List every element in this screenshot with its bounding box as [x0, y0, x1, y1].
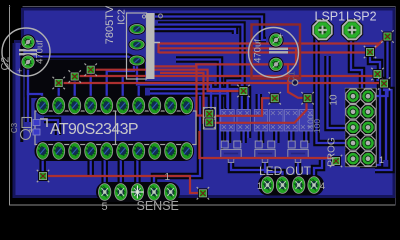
svg-text:C2: C2 — [0, 56, 12, 70]
wire IC pin 6 up — [119, 76, 126, 104]
resistor bodies R1-R6 (vertical) — [221, 110, 313, 132]
svg-text:LSP1: LSP1 — [315, 10, 346, 24]
wire band trace 1 core — [137, 62, 211, 110]
svg-text:7805TV: 7805TV — [104, 5, 116, 44]
IC1 socket centre divider — [115, 111, 117, 145]
wire resistor stubs — [224, 131, 231, 143]
wire sense 4 up — [118, 152, 125, 190]
capacitor C1 red courtyard box — [252, 25, 301, 79]
wire row2 pin4 down — [87, 160, 94, 176]
wire row2 pin1 to via — [39, 152, 46, 174]
svg-text:AT90S2343P: AT90S2343P — [50, 121, 138, 138]
wire LSP1 down — [317, 34, 347, 143]
wire header left — [328, 56, 347, 128]
wire left bus — [31, 57, 137, 61]
svg-text:1: 1 — [257, 181, 262, 191]
via V5 — [269, 92, 281, 104]
wire IC pin 5 up core — [107, 63, 134, 104]
IC1 row2 pads — [35, 141, 194, 160]
wire sense 4 up core — [120, 152, 122, 190]
via V11 — [37, 170, 49, 182]
via V10 — [378, 77, 390, 89]
wire resistor R3 top stub — [256, 94, 263, 110]
isolation zone left-middle — [31, 60, 145, 98]
wire red A4 to via hdr — [195, 64, 303, 97]
wire band trace 2 core — [150, 89, 248, 138]
IC1 row1 pads — [35, 96, 194, 115]
7805 pad 1 — [128, 23, 145, 35]
wire red B1 — [91, 70, 240, 91]
isolation band IC row 2 — [35, 141, 194, 161]
svg-text:1: 1 — [165, 172, 171, 183]
wire LSP1 down core — [317, 34, 347, 143]
wire red via1-via2 diagonal — [370, 37, 388, 53]
wire upper L trace core — [176, 60, 220, 151]
connector X1 pads (bottom layer) — [33, 120, 40, 126]
wire red C2 resistor row — [212, 98, 307, 123]
wire via to IC pin 4 — [87, 71, 94, 104]
svg-text:470uf: 470uf — [253, 39, 264, 63]
via V1 — [53, 77, 65, 89]
wire right edge 1 core — [374, 38, 388, 96]
wire C2- trunk down — [25, 90, 32, 122]
voltage regulator IC2 7805 silkscreen — [127, 13, 163, 79]
wire transistor q1 to led1 — [231, 160, 268, 182]
wire red stub 7805 out — [157, 43, 159, 54]
wire row2 pin1 to via core — [42, 152, 44, 174]
wire top L2 — [158, 25, 243, 87]
wire LSP2 down — [351, 34, 362, 100]
7805 pad 2 — [128, 39, 145, 51]
PROG header pads — [345, 88, 376, 166]
wire X1 to plane core — [44, 120, 58, 135]
connector JP1 pads (2 pad jumper) — [203, 108, 215, 130]
LED OUT pads — [260, 175, 322, 195]
wire right edge 3 core — [378, 76, 387, 160]
svg-text:5: 5 — [102, 201, 108, 213]
via V12 — [197, 187, 209, 199]
wire via V4 down core — [241, 92, 243, 109]
svg-text:SENSE: SENSE — [137, 199, 179, 213]
board outline frame bottom — [9, 204, 396, 206]
wire led4 up core — [314, 160, 322, 182]
transistor Q2 — [255, 141, 275, 163]
wire IC pin 6 up core — [122, 76, 124, 104]
via V3 — [85, 63, 97, 75]
svg-text:10: 10 — [329, 94, 340, 106]
wire C2- trunk down core — [27, 90, 29, 122]
wire via to IC pin 4 core — [90, 71, 92, 104]
via V4 — [237, 85, 249, 97]
wire red B2 long — [75, 75, 378, 77]
wire transistor q2 to led2 — [265, 160, 283, 182]
wire C2- to IC1 pin1 — [28, 64, 42, 104]
via V2 — [69, 70, 81, 82]
wire band trace 1 — [137, 62, 211, 110]
wire red B4 — [150, 66, 204, 115]
wire via V4 up U core — [227, 81, 241, 109]
isolation band SENSE row — [96, 182, 180, 202]
via V9 — [371, 68, 383, 80]
wire via to IC pin 3 core — [74, 78, 76, 104]
wire band trace 2 — [150, 89, 248, 138]
board outline frame left — [9, 5, 11, 205]
board corner notch top-left — [10, 5, 22, 43]
wire upper L trace — [176, 60, 220, 151]
wire top L1 — [155, 17, 266, 41]
capacitor C1 silkscreen circle — [249, 28, 299, 78]
wire via to IC pin 3 — [71, 78, 78, 104]
wire right edge 4 core — [375, 85, 392, 170]
isolation band IC row 1 — [35, 96, 194, 116]
svg-text:4: 4 — [320, 181, 325, 191]
PROG header silkscreen — [346, 89, 377, 167]
svg-text:100: 100 — [312, 119, 322, 133]
wire red B3 long — [59, 82, 384, 84]
wire C2- to IC1 pin1 core — [28, 64, 42, 104]
wire resistor stub cores — [226, 131, 228, 143]
wire IC pin 7 up — [135, 86, 142, 104]
wire right edge 3 — [378, 76, 387, 160]
wire IC pin 5 up — [107, 63, 134, 104]
wire LSP2 down core — [351, 34, 362, 100]
capacitor C1 pads — [268, 32, 283, 47]
via V8 — [364, 46, 376, 58]
board outline frame top — [9, 6, 396, 8]
svg-text:PROG: PROG — [327, 137, 338, 167]
wire via V4 up U — [227, 81, 241, 109]
wire sense 5 up — [101, 152, 108, 190]
wire top L1 core — [155, 17, 266, 41]
capacitor C2 silkscreen circle — [2, 28, 50, 76]
svg-text:470uf: 470uf — [35, 40, 46, 64]
capacitor C3 silkscreen — [21, 118, 35, 140]
wire X1 to plane — [44, 120, 58, 135]
svg-text:LED OUT: LED OUT — [259, 164, 312, 178]
wire via to IC pin 2 — [55, 84, 62, 104]
svg-text:IC2: IC2 — [117, 9, 128, 25]
wire 7805 OUT bus core — [146, 29, 235, 34]
svg-text:LSP2: LSP2 — [346, 10, 377, 24]
IC1 socket silkscreen — [35, 111, 196, 145]
svg-text:1: 1 — [379, 155, 384, 165]
wire transistor q1 to led1 core — [231, 160, 268, 182]
wire via to IC pin 2 core — [58, 84, 60, 104]
wire red C1 resistor row — [212, 98, 270, 116]
wire red A3 to via — [159, 51, 371, 53]
wire sense mid core — [154, 96, 200, 190]
wire red A2 to C1 minus — [159, 48, 297, 64]
SENSE header pads — [97, 182, 178, 202]
wire red B5 — [160, 73, 204, 123]
wire transistor q2 to led2 core — [265, 160, 283, 182]
wire band trace 3 — [150, 94, 228, 144]
wire sense 3 up core — [136, 152, 138, 190]
wire sense 5 up core — [104, 152, 106, 190]
transistor Q3 — [288, 141, 308, 163]
wire top L2 core — [158, 25, 243, 87]
board copper plane — [14, 9, 394, 197]
transistor Q1 — [221, 141, 241, 163]
svg-text:C3: C3 — [10, 122, 19, 133]
wire sense 3 up — [134, 152, 141, 190]
wire right edge 1 — [374, 38, 388, 96]
LSP2 solder pad — [341, 19, 363, 41]
wire transistor q3 to led3 — [295, 160, 302, 182]
wire led4 up — [314, 160, 322, 182]
wire band trace 3 core — [150, 94, 228, 144]
wire row2 pin4 down core — [90, 160, 92, 176]
wire IC pin 7 up core — [138, 86, 140, 104]
wire 7805 OUT bus — [146, 29, 235, 34]
wire resistor R3 top stub core — [258, 94, 260, 110]
bottom layer traces: black isolation — [28, 17, 392, 191]
IC1 pin1 corner mark — [40, 119, 47, 127]
isolation band LED OUT row — [258, 175, 324, 196]
resistor end hatch — [222, 111, 312, 129]
svg-text:+: + — [278, 31, 283, 41]
wire transistor q3 to led3 core — [297, 160, 300, 182]
board outline frame right — [395, 7, 397, 206]
via V7 — [381, 30, 393, 42]
svg-text:C1: C1 — [287, 71, 298, 83]
wire right edge 4 — [375, 85, 392, 170]
wire header left core — [328, 56, 347, 128]
via V6 — [301, 92, 313, 104]
wire left bus core — [31, 57, 137, 61]
plane isolation strip left — [20, 45, 23, 142]
bottom layer traces: blue core — [28, 17, 392, 191]
hole H1 — [292, 80, 298, 86]
via V13 — [330, 155, 342, 167]
LSP1 solder pad — [311, 19, 333, 41]
capacitor C2 pads — [20, 34, 35, 49]
top layer traces (red) — [43, 37, 388, 194]
wire via V4 down — [239, 92, 246, 109]
wire right edge 2 core — [360, 54, 380, 165]
wire sense mid — [154, 96, 200, 190]
wire red A1 to via top-right — [158, 37, 388, 44]
wire right edge 2 — [360, 54, 380, 165]
wire red D1 bottom — [43, 176, 202, 193]
svg-text:+: + — [17, 66, 22, 76]
wire red D2 bottom — [199, 131, 336, 161]
7805 pad 3 — [128, 55, 145, 67]
